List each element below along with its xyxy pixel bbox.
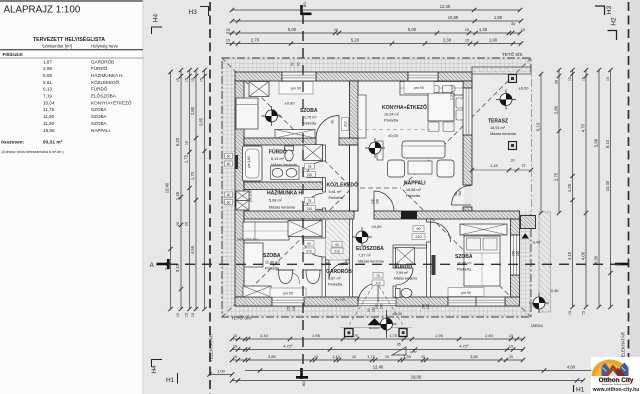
svg-text:15: 15 xyxy=(233,334,237,338)
svg-text:15: 15 xyxy=(191,78,195,82)
svg-text:2,40: 2,40 xyxy=(485,333,494,338)
svg-text:10: 10 xyxy=(385,355,389,359)
left white table panel xyxy=(0,0,143,394)
svg-text:összesen:: összesen: xyxy=(1,140,25,146)
bottom dimension line 5 (18,00) xyxy=(232,380,583,382)
corner pillar block terasz south-east xyxy=(521,216,536,229)
svg-text:Mázas kerámia: Mázas kerámia xyxy=(490,132,517,136)
svg-text:±0,00: ±0,00 xyxy=(388,133,399,138)
interior spine wall corridor right lower xyxy=(350,145,359,211)
svg-text:2,30: 2,30 xyxy=(450,93,454,100)
top dimension line 2 (10,50 / 1,90 / 30) xyxy=(232,20,521,22)
svg-text:4,72⁵: 4,72⁵ xyxy=(283,343,293,348)
nappali tv bench xyxy=(377,141,383,160)
nappali armchair left xyxy=(388,160,405,177)
szoba1 wardrobe crossed xyxy=(249,82,269,97)
left wall niche dark bar hazimunka xyxy=(235,193,239,207)
svg-text:6,13 m²: 6,13 m² xyxy=(271,157,285,161)
svg-text:1,87: 1,87 xyxy=(43,59,52,64)
svg-text:240: 240 xyxy=(376,198,380,204)
svg-text:Mázas kerámia: Mázas kerámia xyxy=(271,163,298,167)
nappali armchair right xyxy=(437,160,454,177)
svg-text:15: 15 xyxy=(582,77,586,81)
exterior wall top (3 segments between windows) xyxy=(235,72,282,81)
svg-text:±0,00: ±0,00 xyxy=(372,224,383,229)
svg-text:KONYHA+ÉTKEZŐ: KONYHA+ÉTKEZŐ xyxy=(91,99,132,105)
svg-text:Mázas kerámia: Mázas kerámia xyxy=(358,259,385,263)
szoba2 wardrobe bottom crossed xyxy=(243,286,271,297)
svg-text:15: 15 xyxy=(606,77,610,81)
svg-text:6,13: 6,13 xyxy=(536,122,541,131)
svg-text:-0,45: -0,45 xyxy=(532,241,541,245)
svg-text:TELEKHATÁR: TELEKHATÁR xyxy=(621,332,626,360)
window sill pm90 szoba2 xyxy=(270,288,306,297)
svg-text:10,04 m²: 10,04 m² xyxy=(384,112,400,116)
svg-text:1,45: 1,45 xyxy=(479,27,488,32)
svg-text:150: 150 xyxy=(292,305,296,311)
entrance arrow triangle xyxy=(368,318,382,325)
svg-text:20: 20 xyxy=(176,222,180,226)
exterior wall bottom segments xyxy=(235,297,272,306)
svg-text:2,70: 2,70 xyxy=(251,38,260,43)
window szoba3 bottom xyxy=(448,297,505,306)
level marker eloszoba xyxy=(352,227,372,247)
szoba3 left thin wall segments xyxy=(427,219,431,222)
window/glass door konyha to terasz xyxy=(463,88,472,135)
svg-text:2,40: 2,40 xyxy=(260,333,269,338)
svg-text:SZOBA: SZOBA xyxy=(91,107,108,112)
level marker entrance xyxy=(377,314,397,334)
svg-text:4,00: 4,00 xyxy=(581,251,586,260)
svg-text:Parketta: Parketta xyxy=(406,194,421,198)
svg-text:10: 10 xyxy=(314,355,318,359)
svg-text:pm 90: pm 90 xyxy=(414,86,424,90)
svg-text:15: 15 xyxy=(509,334,513,338)
svg-text:2,75: 2,75 xyxy=(554,172,559,181)
svg-text:93,31 m²: 93,31 m² xyxy=(43,140,63,146)
svg-text:Mázas kerámia: Mázas kerámia xyxy=(269,206,296,210)
svg-text:TETŐ SÍK: TETŐ SÍK xyxy=(231,315,252,321)
door furdo1 from corridor xyxy=(307,162,323,178)
szoba2 crib xyxy=(279,270,293,284)
svg-text:15: 15 xyxy=(521,28,525,32)
svg-text:SZOBA: SZOBA xyxy=(91,121,108,126)
svg-text:15: 15 xyxy=(191,313,195,317)
furdo3 top thin wall xyxy=(393,245,427,248)
szoba3 wardrobe crossed xyxy=(460,224,507,235)
svg-text:NAPPALI: NAPPALI xyxy=(404,181,426,187)
property boundary TELEKHATAR left dashed line xyxy=(209,2,211,394)
szoba3 radiator dark xyxy=(432,255,436,275)
furdo1 shower crossed xyxy=(303,145,323,161)
svg-text:FÜRDŐ: FÜRDŐ xyxy=(91,86,108,92)
thin wall gardrob/eloszoba xyxy=(350,219,353,297)
svg-text:5,61: 5,61 xyxy=(43,80,52,85)
roof hip diagonal top-left xyxy=(222,58,352,188)
section line B-D overlay on plan xyxy=(302,14,304,368)
dimension 1,00 property to house xyxy=(210,374,233,376)
door size labels furdo1 xyxy=(305,164,315,170)
bottom dimension line 1 xyxy=(232,338,523,340)
svg-text:H1: H1 xyxy=(166,377,175,384)
entrance threshold xyxy=(358,298,396,306)
window szoba1 top xyxy=(282,72,316,81)
interior spine wall corridor right upper (hatched) xyxy=(350,81,359,138)
svg-text:pm 1,60: pm 1,60 xyxy=(247,156,251,168)
svg-text:15: 15 xyxy=(522,164,526,168)
svg-text:Szintterület [m²]: Szintterület [m²] xyxy=(42,44,72,49)
svg-text:1,87 m²: 1,87 m² xyxy=(328,276,342,280)
svg-text:TELEKHATÁR: TELEKHATÁR xyxy=(209,334,214,362)
section line A right end marker xyxy=(615,263,628,266)
exterior wall left xyxy=(235,81,244,297)
svg-text:4,70: 4,70 xyxy=(581,123,586,132)
svg-text:H1: H1 xyxy=(576,387,585,394)
section line B-D bottom end marker xyxy=(296,368,308,379)
level marker nappali xyxy=(365,138,385,158)
svg-text:5,96: 5,96 xyxy=(594,138,599,147)
bottom dimension line 2 xyxy=(232,349,523,351)
svg-text:A: A xyxy=(150,262,155,269)
thin wall szoba2 right segments xyxy=(322,219,326,238)
svg-text:90: 90 xyxy=(416,227,420,231)
entrance porch post right xyxy=(399,329,407,337)
svg-text:18,86 m²: 18,86 m² xyxy=(406,188,422,192)
svg-text:3,80: 3,80 xyxy=(470,354,479,359)
svg-text:10: 10 xyxy=(352,355,356,359)
svg-text:75: 75 xyxy=(308,199,312,203)
svg-text:210: 210 xyxy=(334,249,340,253)
szoba1 bed xyxy=(236,98,258,129)
door size labels hazimunka xyxy=(305,198,315,204)
svg-text:FÜRDŐ: FÜRDŐ xyxy=(91,65,108,71)
svg-text:JÁRDA: JÁRDA xyxy=(531,324,544,328)
svg-text:Parketta: Parketta xyxy=(329,196,344,200)
svg-text:210: 210 xyxy=(307,173,313,177)
left wall niche dark bar furdo xyxy=(235,155,239,169)
svg-text:Parketta: Parketta xyxy=(265,266,280,270)
svg-text:10,04: 10,04 xyxy=(43,100,55,105)
svg-text:15: 15 xyxy=(465,39,469,43)
svg-text:10,40: 10,40 xyxy=(605,180,610,191)
window sill pm90 konyha xyxy=(404,82,434,94)
svg-text:11,75: 11,75 xyxy=(43,107,55,112)
svg-text:15: 15 xyxy=(582,311,586,315)
svg-text:pm 1,50: pm 1,50 xyxy=(249,190,253,202)
svg-text:10: 10 xyxy=(185,141,189,145)
konyha chairs xyxy=(430,86,440,93)
svg-text:5,61 m²: 5,61 m² xyxy=(329,190,343,194)
svg-text:KONYHA+ÉTKEZŐ: KONYHA+ÉTKEZŐ xyxy=(382,103,427,111)
svg-text:1,95: 1,95 xyxy=(312,333,321,338)
section line B-D vertical xyxy=(302,14,304,368)
svg-text:KÖZLEKEDŐ: KÖZLEKEDŐ xyxy=(91,79,120,85)
svg-text:100: 100 xyxy=(426,303,430,309)
szoba1 sideboard crossed along wall xyxy=(275,130,315,139)
svg-text:EMELETES ÁGY: EMELETES ÁGY xyxy=(237,238,259,242)
svg-text:4,15: 4,15 xyxy=(567,251,572,260)
svg-text:TERVEZETT HELYISÉGLISTA: TERVEZETT HELYISÉGLISTA xyxy=(33,35,105,43)
svg-text:KÖZLEKEDŐ: KÖZLEKEDŐ xyxy=(327,182,359,189)
roof outline TETO SIK dash-dot xyxy=(222,58,531,317)
szoba3 double bed vertical xyxy=(464,236,500,286)
svg-text:11,75 m²: 11,75 m² xyxy=(302,115,317,119)
svg-text:ELŐSZOBA: ELŐSZOBA xyxy=(356,245,384,252)
gardrob top thin wall segments xyxy=(326,260,330,263)
roof hip diagonal bottom-right xyxy=(401,188,531,317)
svg-text:15: 15 xyxy=(233,345,237,349)
furdo3 shower crossed xyxy=(396,248,415,265)
left vertical dimension chains xyxy=(170,72,172,309)
svg-text:11,90: 11,90 xyxy=(43,114,55,119)
door size labels szoba2 xyxy=(304,241,314,247)
svg-text:1,45: 1,45 xyxy=(175,191,180,200)
door szoba1 from corridor (in bottom wall) xyxy=(316,116,339,139)
svg-text:1,75: 1,75 xyxy=(389,333,398,338)
window bedroom block right xyxy=(511,235,520,275)
svg-text:4,72⁵: 4,72⁵ xyxy=(459,343,469,348)
szoba2 wardrobe crossed xyxy=(288,221,322,237)
svg-text:TERASZ: TERASZ xyxy=(488,119,508,125)
konyha dining table xyxy=(428,93,454,121)
svg-text:Parketta: Parketta xyxy=(302,121,317,125)
svg-text:1,75: 1,75 xyxy=(367,354,376,359)
svg-text:90: 90 xyxy=(335,243,339,247)
svg-text:15: 15 xyxy=(185,313,189,317)
svg-text:22,5°: 22,5° xyxy=(410,350,418,354)
svg-text:15: 15 xyxy=(226,28,230,32)
svg-text:210: 210 xyxy=(458,190,462,196)
roof hip diagonal top-right xyxy=(401,58,531,188)
property boundary TELEKHATAR right dashed line xyxy=(628,2,630,394)
svg-text:GARDRÓB: GARDRÓB xyxy=(91,58,114,64)
svg-text:H2: H2 xyxy=(611,17,618,26)
svg-text:1,10: 1,10 xyxy=(332,354,341,359)
furdo3 toilet sideways xyxy=(396,289,401,298)
svg-text:100: 100 xyxy=(371,198,375,204)
svg-text:1,90: 1,90 xyxy=(489,38,498,43)
svg-text:Mázas kerámia: Mázas kerámia xyxy=(394,277,417,281)
svg-text:1,90: 1,90 xyxy=(494,15,503,20)
terasz post middle xyxy=(509,142,517,150)
door nappali to terasz xyxy=(452,186,472,206)
svg-text:50: 50 xyxy=(291,62,295,66)
svg-text:Szakértői és Tervezői Iroda Kf: Szakértői és Tervezői Iroda Kft. xyxy=(602,383,631,386)
svg-text:5,00: 5,00 xyxy=(408,27,417,32)
svg-text:NAPPALI: NAPPALI xyxy=(91,128,110,133)
svg-text:-0,45: -0,45 xyxy=(550,289,559,293)
svg-text:BD: BD xyxy=(303,2,307,7)
svg-text:H4: H4 xyxy=(151,365,158,374)
svg-text:210: 210 xyxy=(375,281,381,285)
window sill pm90 szoba1 xyxy=(279,82,313,95)
svg-text:150: 150 xyxy=(287,305,291,311)
svg-text:11,90: 11,90 xyxy=(43,121,55,126)
svg-text:2,30: 2,30 xyxy=(443,38,452,43)
svg-text:30: 30 xyxy=(511,22,515,26)
szoba2 second pot chair xyxy=(306,270,320,284)
svg-text:±0,00: ±0,00 xyxy=(392,311,403,316)
svg-text:60: 60 xyxy=(227,162,231,166)
section line A horizontal xyxy=(168,263,627,265)
svg-text:BD: BD xyxy=(302,381,306,386)
svg-text:HÁZIMUNKA H.: HÁZIMUNKA H. xyxy=(267,190,304,197)
svg-text:FÜRDŐ: FÜRDŐ xyxy=(269,149,287,156)
furdo1 toilet xyxy=(285,146,294,151)
svg-text:15: 15 xyxy=(185,78,189,82)
svg-text:8,10: 8,10 xyxy=(605,139,610,148)
logo center maroon roofs xyxy=(604,365,623,377)
door gardrob xyxy=(329,263,346,280)
svg-text:4,55: 4,55 xyxy=(190,245,195,254)
logo right blue building xyxy=(620,363,629,377)
svg-text:150: 150 xyxy=(516,250,520,256)
svg-text:12,40: 12,40 xyxy=(440,4,451,9)
entrance porch post left xyxy=(345,329,354,337)
svg-text:1,75: 1,75 xyxy=(184,154,189,163)
svg-text:190: 190 xyxy=(375,303,379,309)
door size labels gardrob xyxy=(332,242,342,248)
svg-text:Otthon City: Otthon City xyxy=(599,377,634,384)
window szoba2 bottom xyxy=(272,297,304,306)
svg-text:3,80: 3,80 xyxy=(268,354,277,359)
svg-text:60: 60 xyxy=(227,193,231,197)
svg-text:15: 15 xyxy=(176,313,180,317)
gardrob shelves nook hatch xyxy=(326,219,350,260)
door hazimunka from corridor xyxy=(307,194,323,210)
svg-text:15: 15 xyxy=(176,78,180,82)
svg-text:5,08 m²: 5,08 m² xyxy=(269,199,283,203)
svg-text:4,30: 4,30 xyxy=(594,255,599,264)
nappali long sofa xyxy=(402,141,445,158)
svg-text:±0,00: ±0,00 xyxy=(519,86,530,91)
svg-text:5,20: 5,20 xyxy=(351,38,360,43)
svg-text:240: 240 xyxy=(380,303,384,309)
svg-text:18,91 m²: 18,91 m² xyxy=(490,126,506,130)
svg-text:75: 75 xyxy=(376,274,380,278)
window sill pm90 szoba3 xyxy=(448,288,484,297)
roof plane grid band left xyxy=(222,72,235,317)
svg-text:1,00: 1,00 xyxy=(217,368,226,373)
svg-text:240: 240 xyxy=(422,303,426,309)
logo sun arc xyxy=(592,360,629,376)
jarda step triangle xyxy=(522,233,530,238)
svg-text:75: 75 xyxy=(308,165,312,169)
svg-text:10,40: 10,40 xyxy=(165,182,170,193)
window konyha top xyxy=(408,72,438,81)
svg-text:30: 30 xyxy=(511,159,515,163)
svg-text:10,50: 10,50 xyxy=(448,15,459,20)
svg-text:20: 20 xyxy=(185,222,189,226)
porch roof dashed hips xyxy=(346,286,373,330)
entrance door single leaf xyxy=(358,283,378,303)
top dimension line 1 (12,40) xyxy=(232,9,520,11)
svg-text:60: 60 xyxy=(227,155,231,159)
svg-text:6,20: 6,20 xyxy=(175,137,180,146)
door szoba3 from eloszoba xyxy=(431,222,451,242)
svg-text:10: 10 xyxy=(421,355,425,359)
house interior floor xyxy=(243,80,464,298)
chimney block xyxy=(401,211,417,219)
roof plane grid band bottom xyxy=(235,306,531,317)
szoba2 desk xyxy=(244,243,263,267)
furdo3 left thin wall segments xyxy=(393,248,396,268)
svg-text:(A terasz nincs beleszámolva a: (A terasz nincs beleszámolva a m²-be.) xyxy=(2,150,64,154)
svg-text:H4: H4 xyxy=(153,13,160,22)
dim labels 60 60 left wall furdo xyxy=(225,154,233,159)
furdo1 bathtub xyxy=(243,146,263,181)
svg-text:5,08: 5,08 xyxy=(43,73,52,78)
svg-text:ALAPRAJZ 1:100: ALAPRAJZ 1:100 xyxy=(4,5,81,16)
svg-text:pm 90: pm 90 xyxy=(283,292,293,296)
svg-text:210: 210 xyxy=(307,207,313,211)
terasz top edge wall band xyxy=(472,67,531,74)
roof hip diagonal bottom-left xyxy=(222,188,352,317)
svg-text:Parketta: Parketta xyxy=(457,267,472,271)
door eloszoba from nappali xyxy=(374,191,394,211)
dim labels 60 60 left wall hazimunka xyxy=(225,192,233,197)
svg-text:60: 60 xyxy=(227,201,231,205)
terasz floor xyxy=(472,74,531,211)
jarda hatched strip right xyxy=(539,212,551,312)
svg-text:210: 210 xyxy=(415,235,421,239)
roof ridge dashed xyxy=(352,187,401,189)
door szoba2 from eloszoba xyxy=(304,238,323,257)
svg-text:50: 50 xyxy=(297,62,301,66)
interior wall furdo/hazimunka xyxy=(244,182,323,190)
svg-text:Parketta: Parketta xyxy=(328,282,343,286)
svg-text:pm 90: pm 90 xyxy=(291,87,301,91)
svg-text:1,45: 1,45 xyxy=(490,164,497,168)
svg-text:15: 15 xyxy=(200,78,204,82)
interior wall szoba1 bottom segments with door gap xyxy=(244,138,316,145)
svg-text:ELŐSZOBA: ELŐSZOBA xyxy=(91,93,117,99)
svg-text:1,95: 1,95 xyxy=(435,333,444,338)
logo left blue building xyxy=(602,363,610,376)
svg-text:150: 150 xyxy=(512,250,516,256)
svg-text:GARDRÓB: GARDRÓB xyxy=(326,267,352,275)
roof plane grid band top xyxy=(222,58,531,72)
svg-text:6,13: 6,13 xyxy=(43,87,52,92)
bottom dimension line 3 xyxy=(232,359,523,361)
roof slope marker 22,5 xyxy=(392,347,406,355)
top dimension line 3 (15/5,00/20/5,00/15/1,45/15) xyxy=(226,32,520,34)
terasz mini dimension line xyxy=(472,169,531,171)
svg-text:Helyiség neve: Helyiség neve xyxy=(91,44,119,49)
roof plane grid band right of bedroom block xyxy=(520,211,532,317)
svg-text:2,80: 2,80 xyxy=(554,105,559,114)
svg-text:H3: H3 xyxy=(189,9,198,16)
svg-text:15: 15 xyxy=(509,344,513,348)
grid marker H1 bottom-right xyxy=(573,385,575,392)
svg-text:30: 30 xyxy=(555,80,559,84)
svg-text:3,10: 3,10 xyxy=(165,261,170,270)
svg-text:2,99 m²: 2,99 m² xyxy=(396,271,409,275)
svg-text:SZOBA: SZOBA xyxy=(91,114,108,119)
svg-text:20: 20 xyxy=(334,28,338,32)
porch steps lines xyxy=(340,327,412,329)
svg-text:12,40: 12,40 xyxy=(373,364,384,369)
svg-text:SZOBA: SZOBA xyxy=(455,254,473,260)
svg-text:18,86: 18,86 xyxy=(43,128,55,133)
svg-text:90: 90 xyxy=(307,242,311,246)
svg-text:90: 90 xyxy=(331,120,335,124)
svg-text:15: 15 xyxy=(233,355,237,359)
svg-text:2,99: 2,99 xyxy=(43,66,52,71)
top dimension line 4 (15/2,70/5,20/2,30/15/1,90) xyxy=(226,43,521,45)
section line A left end marker xyxy=(157,259,171,269)
svg-text:1,30: 1,30 xyxy=(403,354,412,359)
